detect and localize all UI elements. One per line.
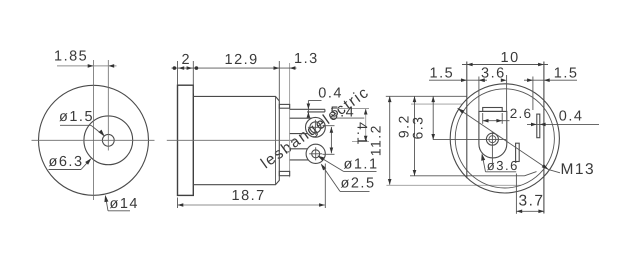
middle view: cap right edge / ext line bbox=[289, 63, 291, 177]
svg-text:ø1.1: ø1.1 bbox=[344, 157, 379, 173]
middle view: top terminal bbox=[290, 108, 325, 110]
left view: flange outer circle ø14 bbox=[39, 85, 149, 195]
svg-text:1.5: 1.5 bbox=[554, 66, 579, 82]
middle view: cap top tab bbox=[279, 104, 289, 108]
middle view: motor body outline bbox=[193, 96, 279, 184]
svg-text:2: 2 bbox=[182, 52, 192, 68]
right view: outer circle (thread major dia) bbox=[450, 84, 559, 193]
middle view: cap bottom tab bbox=[279, 171, 289, 175]
middle view: flange bbox=[178, 85, 194, 195]
left view: horizontal centerline bbox=[32, 139, 155, 141]
dimension 11.2 (body diameter) bbox=[389, 96, 391, 185]
svg-text:10: 10 bbox=[501, 50, 520, 66]
ext 6.3 bottom / center h-arm bbox=[433, 138, 506, 140]
ext line 9.2 bottom bbox=[410, 175, 525, 177]
right view: right flat + ext line bbox=[543, 62, 545, 214]
right view: lower brush bar bbox=[516, 143, 520, 161]
svg-text:0.4: 0.4 bbox=[559, 109, 584, 125]
svg-text:1.85: 1.85 bbox=[54, 49, 88, 65]
ext line body bottom bbox=[386, 184, 521, 186]
svg-text:18.7: 18.7 bbox=[232, 188, 266, 204]
svg-text:5.4: 5.4 bbox=[331, 105, 356, 121]
M13 thread leader bbox=[458, 108, 549, 169]
ext line cap tab top bbox=[411, 103, 463, 105]
svg-text:ø1.5: ø1.5 bbox=[59, 109, 94, 125]
dimension 3.7 bbox=[515, 174, 517, 214]
svg-text:6.3: 6.3 bbox=[410, 116, 426, 140]
svg-text:2.6: 2.6 bbox=[510, 106, 532, 121]
ext line body top bbox=[386, 95, 467, 97]
right view: shaft center bbox=[486, 133, 498, 145]
dimension 18.7 (total length) bbox=[178, 204, 325, 206]
svg-text:11.2: 11.2 bbox=[367, 124, 383, 156]
svg-text:3.7: 3.7 bbox=[519, 193, 545, 210]
dimension 2.6 bbox=[482, 113, 484, 124]
middle view: chamfer edge line bbox=[275, 96, 277, 184]
dimension 10 bbox=[462, 64, 548, 66]
svg-text:ø2.5: ø2.5 bbox=[341, 176, 376, 192]
right view: left flat + ext line bbox=[466, 62, 468, 179]
dimension 6.3 (rotated) bbox=[432, 96, 434, 140]
svg-text:12.9: 12.9 bbox=[225, 52, 259, 68]
dimension 9.2 (rotated) bbox=[414, 96, 416, 176]
svg-text:1.5: 1.5 bbox=[430, 66, 455, 82]
middle view: centerline bbox=[167, 139, 295, 141]
left view: vertical centerline (flange center) bbox=[93, 60, 95, 200]
left view: boss circle ø6.3 bbox=[84, 116, 133, 165]
dimension 5.4 bbox=[331, 108, 369, 110]
left view: vertical centerline (shaft center) bbox=[107, 60, 109, 151]
svg-text:ø3.6: ø3.6 bbox=[487, 158, 519, 173]
left view: shaft circle ø1.5 bbox=[102, 134, 114, 146]
svg-text:ø14: ø14 bbox=[110, 196, 140, 212]
middle view: bottom terminal bbox=[306, 144, 325, 163]
dimension 1.85 (shaft offset) bbox=[57, 65, 117, 67]
right view: brush slot U-shape bbox=[479, 111, 507, 158]
svg-text:1.3: 1.3 bbox=[294, 51, 319, 67]
svg-text:0.4: 0.4 bbox=[318, 86, 343, 102]
right view: inner circle bbox=[455, 89, 554, 188]
svg-text:ø6.3: ø6.3 bbox=[49, 154, 84, 170]
right view: right brush bar bbox=[537, 114, 540, 138]
right view: slot top tab bbox=[483, 108, 503, 112]
svg-text:M13: M13 bbox=[561, 161, 596, 178]
dimensions 2 / 12.9 / 1.3 bbox=[172, 67, 297, 69]
